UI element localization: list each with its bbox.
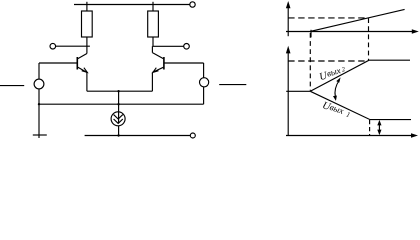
wire left collector output bbox=[56, 45, 90, 47]
wire bottom rail bbox=[85, 135, 191, 137]
label Uout1 bbox=[321, 99, 352, 120]
current source I0 bbox=[111, 112, 125, 126]
axis graph2 vertical bbox=[287, 51, 289, 136]
wire left input vertical upper bbox=[38, 63, 40, 79]
wire R2 bottom lead bbox=[151, 37, 154, 53]
resistor R2 bbox=[148, 11, 159, 37]
transistor Q2 bbox=[152, 53, 164, 92]
arrow curved between output labels bbox=[333, 77, 341, 101]
curve Uout1 falling branch bbox=[310, 91, 411, 119]
wire right collector output bbox=[152, 45, 183, 47]
wire Q2 base lead bbox=[164, 62, 204, 64]
dashed level graph1 bbox=[288, 17, 368, 19]
node emitter rail center junction bbox=[117, 90, 119, 92]
wire common input bus bbox=[39, 103, 204, 105]
wire emitter rail bbox=[87, 90, 152, 92]
dashed level graph2 bbox=[288, 60, 366, 62]
generator G2 (right input source circle) bbox=[200, 78, 209, 87]
node tick on axis at ramp start bbox=[310, 30, 312, 38]
node tail bus junction bbox=[117, 103, 119, 105]
wire top supply rail bbox=[74, 4, 190, 6]
svg-text:2: 2 bbox=[341, 66, 347, 74]
wire below current source bbox=[118, 126, 120, 136]
terminal +Ucc (top right open circle) bbox=[190, 2, 195, 7]
wire right input vertical upper bbox=[203, 63, 205, 78]
svg-text:вых: вых bbox=[325, 65, 341, 78]
wire right input vertical lower bbox=[203, 87, 205, 104]
ground left bar bbox=[33, 134, 47, 136]
node junction tick above rail at R1 bbox=[86, 2, 88, 11]
wire Q1 base lead bbox=[39, 62, 77, 64]
node bottom rail junction bbox=[117, 134, 119, 136]
label Uout2 bbox=[318, 64, 348, 83]
dashed vertical at switch point x=310 bbox=[309, 33, 311, 91]
dashed vertical from ramp crossing down to Uout2 level bbox=[368, 18, 370, 60]
axis graph2 horizontal bbox=[286, 135, 412, 137]
svg-text:1: 1 bbox=[345, 110, 351, 119]
terminal bottom right (open circle) bbox=[190, 133, 195, 138]
terminal left output (open circle) bbox=[50, 43, 56, 49]
generator G1 (left input source circle) bbox=[34, 79, 44, 89]
wire left input vertical lower bbox=[38, 89, 40, 138]
dimension double arrow bbox=[377, 120, 381, 135]
curve input ramp graph1 bbox=[311, 9, 404, 31]
node junction tick above rail at R2 bbox=[152, 2, 154, 11]
transistor Q1 bbox=[77, 54, 87, 92]
axis graph1 vertical bbox=[287, 6, 289, 36]
terminal right output (open circle) bbox=[184, 44, 190, 50]
curve output flat left graph2 bbox=[286, 90, 310, 92]
curve Uout2 rising branch bbox=[310, 60, 410, 91]
dash input label line right bbox=[219, 84, 246, 86]
axis graph1 horizontal bbox=[286, 31, 413, 33]
wire tail down from emitter rail bbox=[118, 91, 120, 112]
resistor R1 bbox=[82, 11, 93, 37]
dash input label line far left bbox=[0, 85, 24, 87]
wire R1 bottom lead bbox=[86, 37, 88, 54]
dashed vertical below Uout1 level bbox=[369, 120, 371, 136]
node left bus junction bbox=[38, 103, 40, 105]
svg-text:вых: вых bbox=[329, 102, 345, 116]
